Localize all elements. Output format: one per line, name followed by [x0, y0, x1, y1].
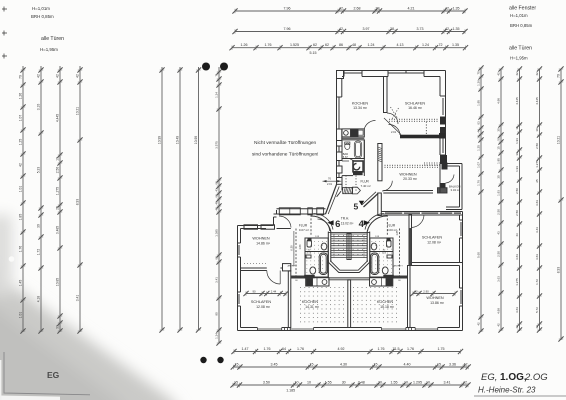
bedroom lower-right bottom wall — [412, 262, 463, 264]
svg-text:Nicht vermaßte Türöffnungen: Nicht vermaßte Türöffnungen — [254, 140, 317, 146]
svg-text:3.36: 3.36 — [449, 362, 456, 366]
svg-text:2.68: 2.68 — [354, 6, 361, 10]
svg-text:2.50: 2.50 — [535, 143, 539, 149]
svg-text:5: 5 — [354, 202, 359, 212]
svg-text:90: 90 — [252, 289, 256, 293]
door bedroom lower-right swing — [412, 215, 425, 228]
svg-text:3.10: 3.10 — [37, 104, 41, 111]
svg-text:H=1,01m: H=1,01m — [510, 13, 528, 18]
svg-text:3.485: 3.485 — [56, 226, 60, 234]
interior dim living lower-right — [410, 291, 457, 296]
dimension chain bottom 2 — [231, 364, 471, 369]
svg-text:1.95: 1.95 — [477, 100, 481, 106]
svg-text:H=1,95m: H=1,95m — [40, 47, 58, 52]
svg-text:FLUR: FLUR — [361, 179, 370, 183]
svg-text:30: 30 — [477, 135, 481, 139]
svg-text:5.15: 5.15 — [310, 51, 317, 55]
svg-text:1.26: 1.26 — [241, 43, 248, 47]
svg-text:42: 42 — [535, 325, 539, 329]
bathroom column lower-left — [305, 238, 328, 277]
lower building north wall with window sills — [381, 212, 462, 216]
stair hall curved walls — [311, 216, 331, 232]
svg-text:KOCHEN: KOCHEN — [352, 102, 369, 106]
svg-text:28: 28 — [376, 6, 380, 10]
dimension line right 5 — [558, 66, 563, 341]
bathroom lower-right dark thresholds — [387, 239, 391, 242]
dotted wall balcony west — [424, 163, 440, 166]
svg-text:63: 63 — [477, 121, 481, 125]
punch hole dot top B — [220, 63, 228, 71]
kitchen lower-left dotted floor — [300, 287, 344, 322]
svg-text:3.63: 3.63 — [535, 200, 539, 206]
entrance bay west step walls — [238, 210, 291, 229]
svg-text:2.50: 2.50 — [515, 188, 519, 194]
punch hole dot bottom B — [217, 357, 223, 363]
svg-text:7.96: 7.96 — [284, 6, 291, 10]
dimension line left outer 3 — [57, 66, 62, 334]
chimney hatching — [378, 147, 382, 162]
svg-text:14.31 m²: 14.31 m² — [305, 305, 320, 309]
punch hole dot bottom A — [200, 357, 206, 363]
small door bedroom-living with swing — [389, 124, 401, 135]
svg-text:42: 42 — [37, 74, 41, 78]
svg-text:48: 48 — [352, 43, 356, 47]
svg-text:4.92: 4.92 — [338, 347, 345, 351]
svg-text:10: 10 — [426, 380, 430, 384]
svg-text:2.01: 2.01 — [391, 130, 397, 134]
svg-text:42: 42 — [215, 207, 219, 211]
svg-text:1.76: 1.76 — [407, 347, 414, 351]
svg-text:71.5: 71.5 — [393, 347, 400, 351]
svg-text:1.OG,: 1.OG, — [500, 372, 527, 383]
svg-text:alle Türen: alle Türen — [509, 46, 532, 52]
punch hole dot top A — [202, 63, 210, 71]
svg-text:1.76: 1.76 — [265, 43, 272, 47]
corridor lower-right dashed walls — [399, 229, 401, 277]
bath/wc divider wall upper — [342, 158, 349, 160]
svg-text:63: 63 — [215, 194, 219, 198]
svg-text:8.93: 8.93 — [76, 199, 80, 206]
svg-text:WOHNEN: WOHNEN — [426, 296, 444, 300]
svg-text:70: 70 — [19, 75, 23, 79]
punch hole white — [9, 256, 15, 262]
svg-text:30: 30 — [497, 128, 501, 132]
svg-text:SCHLAFEN: SCHLAFEN — [422, 236, 443, 240]
interior dim bedroom lower-left — [243, 291, 288, 296]
svg-text:1.525: 1.525 — [290, 43, 299, 47]
svg-text:3.63: 3.63 — [535, 254, 539, 260]
door bedroom upper with swing — [387, 113, 398, 124]
svg-text:62: 62 — [325, 43, 329, 47]
svg-text:3.41: 3.41 — [76, 295, 80, 302]
center dividing wall between kitchens — [348, 280, 351, 328]
wall kitchen/bath upper — [342, 137, 364, 139]
svg-text:44: 44 — [477, 129, 481, 133]
svg-text:4.13: 4.13 — [397, 43, 404, 47]
svg-text:3.63: 3.63 — [497, 276, 501, 282]
stair landing octagonal wall — [328, 260, 369, 273]
bathroom upper (BAD) fixtures — [342, 140, 364, 159]
svg-text:5.72: 5.72 — [535, 307, 539, 313]
living room south wall upper — [383, 191, 433, 194]
door living/bedroom lower-left swing — [267, 271, 280, 285]
svg-text:1.76: 1.76 — [264, 347, 271, 351]
svg-text:15: 15 — [310, 362, 314, 366]
svg-text:10.85: 10.85 — [56, 278, 60, 286]
dimension chain bottom 3 — [230, 382, 470, 387]
svg-text:6: 6 — [335, 219, 340, 230]
wall kitchen west lower-left — [288, 271, 291, 328]
svg-text:WOHNEN: WOHNEN — [399, 173, 417, 177]
svg-text:1.25: 1.25 — [19, 139, 23, 146]
svg-text:2.50: 2.50 — [497, 209, 501, 215]
svg-text:43: 43 — [215, 188, 219, 192]
wc threshold dark — [353, 172, 363, 175]
dimension chain top 3 — [229, 45, 468, 50]
svg-text:1.35: 1.35 — [452, 43, 459, 47]
svg-text:3.97: 3.97 — [363, 27, 370, 31]
svg-text:28: 28 — [390, 27, 394, 31]
svg-text:10.99: 10.99 — [158, 136, 162, 144]
svg-text:1.63: 1.63 — [299, 244, 302, 249]
upper apartment exterior walls — [337, 71, 446, 185]
pier blocks upper apartment right wall — [440, 117, 447, 164]
bedroom lower-left top dotted — [244, 263, 266, 265]
svg-text:H=1,95m: H=1,95m — [510, 56, 528, 61]
door hallway-living swing — [382, 181, 392, 191]
svg-text:4.445: 4.445 — [56, 114, 60, 122]
svg-text:16.46 m²: 16.46 m² — [408, 106, 423, 110]
svg-text:1.55: 1.55 — [391, 380, 398, 384]
dimension line right 4 — [537, 66, 542, 332]
svg-text:4.445: 4.445 — [515, 97, 519, 105]
svg-text:3.34 m²: 3.34 m² — [451, 188, 461, 192]
svg-text:1.07: 1.07 — [19, 115, 23, 122]
entrance bay left diagonal wall — [326, 185, 337, 215]
svg-text:1.55: 1.55 — [325, 380, 332, 384]
svg-text:1.275: 1.275 — [535, 160, 539, 168]
svg-text:42: 42 — [477, 322, 481, 326]
living room west wall with chimney hatch — [378, 144, 382, 181]
svg-text:42: 42 — [497, 323, 501, 327]
svg-text:70: 70 — [477, 71, 481, 75]
threshold hatched lower-left — [291, 276, 307, 279]
kitchen counter lower-right — [370, 278, 393, 286]
svg-text:10: 10 — [56, 157, 60, 161]
svg-text:30: 30 — [342, 380, 346, 384]
svg-text:4.18: 4.18 — [37, 296, 41, 303]
svg-text:10.49: 10.49 — [176, 136, 180, 144]
svg-text:3.63: 3.63 — [515, 307, 519, 313]
dimension line left outer 4 — [77, 66, 82, 334]
wc door small marks — [349, 158, 354, 161]
svg-text:alle Türen: alle Türen — [41, 36, 64, 42]
svg-text:alle Fenster: alle Fenster — [509, 6, 536, 12]
svg-text:ANTRITT: ANTRITT — [394, 264, 404, 267]
corridor dim vertical — [293, 231, 295, 266]
svg-text:42: 42 — [445, 27, 449, 31]
svg-text:H=1,01m: H=1,01m — [32, 6, 50, 11]
svg-text:70: 70 — [557, 74, 561, 78]
svg-text:42: 42 — [515, 72, 519, 76]
svg-text:42: 42 — [463, 380, 467, 384]
svg-text:SCHLAFEN: SCHLAFEN — [405, 102, 426, 106]
dimension line left outer 1 — [20, 66, 25, 334]
svg-text:1.01: 1.01 — [19, 186, 23, 193]
svg-text:15: 15 — [374, 362, 378, 366]
stair top edge — [328, 231, 369, 233]
svg-text:30: 30 — [378, 380, 382, 384]
corridor lower-left dashed walls — [295, 229, 297, 277]
left margin registration marks — [2, 7, 7, 59]
svg-text:10: 10 — [404, 380, 408, 384]
svg-text:2.44: 2.44 — [271, 289, 277, 293]
svg-text:13.02 m²: 13.02 m² — [341, 222, 354, 226]
window blocks north wall west wing — [244, 225, 275, 229]
svg-text:2.01: 2.01 — [327, 182, 333, 186]
svg-text:10.21: 10.21 — [76, 107, 80, 115]
svg-text:43: 43 — [497, 231, 501, 235]
svg-text:30: 30 — [515, 152, 519, 156]
svg-text:SCHLAFEN: SCHLAFEN — [251, 300, 272, 304]
svg-text:15: 15 — [235, 362, 239, 366]
svg-text:42: 42 — [445, 6, 449, 10]
svg-text:1.01: 1.01 — [19, 312, 23, 319]
svg-text:1.85: 1.85 — [396, 230, 399, 235]
svg-text:4.30: 4.30 — [340, 362, 347, 366]
svg-text:4.40: 4.40 — [404, 362, 411, 366]
svg-text:4.99: 4.99 — [497, 308, 501, 314]
bathroom lower-left dotted floor — [307, 241, 327, 273]
dimension line left inner 1 — [159, 67, 164, 333]
bathroom lower-right dotted floor — [372, 241, 392, 273]
svg-text:3.575: 3.575 — [215, 141, 219, 149]
balcony door pier — [438, 188, 448, 193]
svg-text:42: 42 — [464, 362, 468, 366]
svg-text:5.33: 5.33 — [37, 167, 41, 174]
svg-text:4.21: 4.21 — [408, 6, 415, 10]
svg-text:BRH 0,85m: BRH 0,85m — [31, 14, 54, 19]
svg-text:8.93: 8.93 — [557, 267, 561, 274]
door apartment6 from hall swing — [318, 219, 330, 231]
stair treads — [331, 234, 367, 260]
svg-text:1.275: 1.275 — [56, 187, 60, 195]
svg-text:1.24: 1.24 — [422, 43, 429, 47]
svg-text:2.48: 2.48 — [358, 380, 365, 384]
svg-text:1.35: 1.35 — [453, 27, 460, 31]
svg-text:EG,: EG, — [481, 372, 497, 383]
dotted existing wall living — [385, 165, 439, 168]
svg-text:FLUR: FLUR — [387, 224, 396, 228]
svg-text:42: 42 — [76, 74, 80, 78]
svg-text:TR.H.: TR.H. — [341, 217, 349, 221]
svg-text:42: 42 — [339, 6, 343, 10]
wall kitchen east lower-right — [408, 266, 411, 328]
svg-text:42: 42 — [339, 27, 343, 31]
svg-text:WOHNEN: WOHNEN — [252, 237, 270, 241]
svg-text:10.99: 10.99 — [194, 136, 198, 144]
svg-text:64: 64 — [282, 347, 286, 351]
svg-text:4.445: 4.445 — [535, 97, 539, 105]
svg-text:42: 42 — [535, 72, 539, 76]
svg-text:2.50: 2.50 — [56, 167, 60, 174]
lower building east wall — [460, 212, 463, 331]
svg-text:1.93: 1.93 — [515, 166, 519, 172]
svg-text:1.24: 1.24 — [215, 333, 219, 339]
svg-text:90: 90 — [414, 289, 418, 293]
dimension line left outer 2 — [38, 66, 43, 334]
svg-text:5.60: 5.60 — [477, 252, 481, 258]
svg-text:1.275: 1.275 — [515, 278, 519, 286]
svg-text:42: 42 — [497, 72, 501, 76]
small diagonal near steps — [337, 191, 342, 197]
svg-text:25: 25 — [535, 179, 539, 183]
svg-text:1.93: 1.93 — [515, 138, 519, 144]
exterior dim entrance — [323, 180, 342, 182]
svg-text:15.18 m²: 15.18 m² — [380, 305, 395, 309]
stair dotted guides — [333, 234, 335, 258]
svg-text:9.07 m²: 9.07 m² — [299, 228, 309, 232]
entrance bay right diagonal wall — [364, 194, 379, 208]
svg-text:1.07: 1.07 — [477, 162, 481, 168]
svg-text:sind vorhandene Türöffnungen!: sind vorhandene Türöffnungen! — [252, 152, 319, 158]
svg-text:71: 71 — [215, 73, 219, 77]
svg-text:15: 15 — [497, 146, 501, 150]
dimension line left inner 4 — [216, 67, 221, 346]
existing wall dotted vertical bedroom — [425, 122, 427, 135]
svg-text:15: 15 — [437, 362, 441, 366]
door apartment6 swing — [279, 216, 291, 228]
svg-text:1.76: 1.76 — [297, 347, 304, 351]
svg-text:1.93: 1.93 — [497, 190, 501, 196]
living west wall lower piece — [378, 193, 382, 216]
kitchen lower-right dotted floor — [353, 287, 397, 322]
svg-text:42: 42 — [515, 325, 519, 329]
svg-text:3.50: 3.50 — [263, 380, 270, 384]
lower building south wall — [238, 328, 463, 331]
svg-text:1.85: 1.85 — [19, 214, 23, 221]
dimension line right 2 — [498, 66, 503, 332]
svg-text:25: 25 — [56, 206, 60, 210]
svg-text:30: 30 — [497, 175, 501, 179]
svg-text:1.26: 1.26 — [477, 80, 481, 86]
bedroom/living divider dark wall — [400, 135, 439, 139]
svg-text:1.76: 1.76 — [19, 246, 23, 253]
svg-text:42: 42 — [56, 74, 60, 78]
kitchen counter lower-left — [306, 278, 329, 286]
svg-text:1.35: 1.35 — [453, 6, 460, 10]
wc room upper with toilet — [353, 161, 363, 172]
svg-text:1.85: 1.85 — [497, 158, 501, 164]
svg-text:72: 72 — [439, 43, 443, 47]
svg-text:13.86 m²: 13.86 m² — [430, 301, 445, 305]
balcony door swing — [446, 175, 455, 184]
dimension chain top 1 — [232, 8, 467, 13]
svg-text:62: 62 — [215, 181, 219, 185]
svg-text:3.41: 3.41 — [215, 277, 219, 283]
svg-text:43: 43 — [515, 233, 519, 237]
stairwell south wall — [328, 277, 370, 279]
svg-text:3.43: 3.43 — [535, 227, 539, 233]
svg-text:1.72: 1.72 — [535, 279, 539, 285]
dimension line left inner 2 — [177, 67, 182, 333]
dimension line right 3 — [517, 66, 522, 332]
svg-text:1.24: 1.24 — [215, 92, 219, 98]
svg-text:50: 50 — [497, 137, 501, 141]
kitchen counter upper with sink and stove — [342, 129, 364, 137]
door kitchen from hallway with swing — [364, 120, 375, 128]
svg-text:1.295: 1.295 — [413, 380, 422, 384]
lower building west wall — [238, 226, 241, 331]
svg-text:1.76: 1.76 — [378, 347, 385, 351]
svg-text:6.30: 6.30 — [290, 245, 294, 251]
svg-text:EG: EG — [47, 370, 60, 380]
hallway walls upper (FLUR) — [342, 140, 364, 191]
svg-text:10: 10 — [295, 380, 299, 384]
svg-text:1.185: 1.185 — [286, 389, 295, 393]
svg-text:62: 62 — [215, 256, 219, 260]
svg-text:1.47: 1.47 — [242, 347, 249, 351]
svg-text:12.08 m²: 12.08 m² — [427, 241, 442, 245]
svg-text:62: 62 — [313, 43, 317, 47]
underline below address — [474, 395, 566, 397]
svg-text:14.86 m²: 14.86 m² — [256, 242, 271, 246]
bedroom lower-right west wall — [409, 215, 412, 266]
svg-text:3.41: 3.41 — [444, 380, 451, 384]
svg-text:4.98: 4.98 — [497, 98, 501, 104]
svg-text:ANTRITT: ANTRITT — [288, 264, 298, 267]
svg-text:1.72: 1.72 — [37, 249, 41, 256]
svg-text:20.33 m²: 20.33 m² — [403, 177, 418, 181]
svg-text:2.50: 2.50 — [497, 251, 501, 257]
svg-text:15: 15 — [234, 380, 238, 384]
svg-text:3.45: 3.45 — [271, 362, 278, 366]
threshold hatched lower-right — [392, 276, 408, 279]
stairwell walls — [328, 232, 369, 278]
svg-text:BRH 0,85m: BRH 0,85m — [510, 23, 533, 28]
svg-text:3.63: 3.63 — [515, 254, 519, 260]
svg-text:90: 90 — [215, 312, 219, 316]
svg-text:12.08 m²: 12.08 m² — [256, 305, 271, 309]
svg-text:FLUR: FLUR — [299, 224, 308, 228]
dotted existing wall bedroom — [389, 119, 438, 122]
svg-text:10.21: 10.21 — [557, 136, 561, 144]
svg-text:1.75: 1.75 — [438, 347, 445, 351]
bathroom column lower-right — [370, 238, 393, 277]
svg-text:10: 10 — [535, 128, 539, 132]
dimension chain top 2 — [232, 29, 467, 34]
svg-text:86: 86 — [339, 43, 343, 47]
dimension line left inner 3 — [196, 67, 201, 333]
dimension line right 1 — [478, 65, 483, 333]
svg-text:42: 42 — [19, 163, 23, 167]
svg-text:2.OG: 2.OG — [524, 372, 548, 383]
page edge lines bottom-left — [4, 352, 90, 395]
svg-text:7.96: 7.96 — [284, 27, 291, 31]
entrance bay window wall — [277, 208, 326, 215]
entrance steps hatched — [343, 187, 361, 194]
living room lower-left bottom wall — [241, 264, 291, 271]
svg-text:3.73: 3.73 — [417, 27, 424, 31]
bathroom lower-left dark thresholds — [308, 239, 312, 242]
svg-text:1.26: 1.26 — [19, 93, 23, 100]
svg-text:15: 15 — [515, 126, 519, 130]
dotted existing wall hallway upper — [345, 176, 347, 192]
svg-text:33: 33 — [56, 325, 60, 329]
svg-text:30: 30 — [37, 224, 41, 228]
svg-text:1.45: 1.45 — [19, 280, 23, 287]
svg-text:H.-Heine-Str. 23: H.-Heine-Str. 23 — [478, 386, 536, 395]
